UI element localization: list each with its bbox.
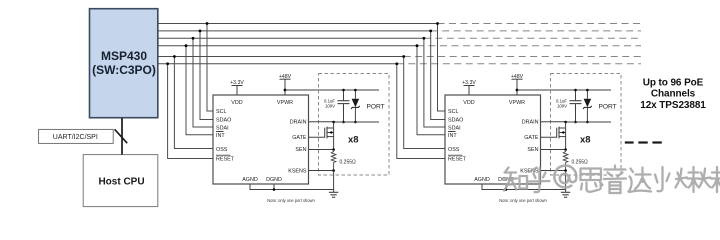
svg-text:Up to 96 PoE: Up to 96 PoE: [643, 77, 704, 88]
svg-text:Host CPU: Host CPU: [98, 177, 144, 188]
svg-text:12x TPS23881: 12x TPS23881: [640, 100, 706, 111]
svg-text:UART/I2C/SPI: UART/I2C/SPI: [53, 134, 98, 141]
svg-text:(SW:C3PO): (SW:C3PO): [92, 63, 156, 77]
svg-text:Channels: Channels: [651, 89, 696, 100]
svg-text:MSP430: MSP430: [101, 49, 147, 63]
